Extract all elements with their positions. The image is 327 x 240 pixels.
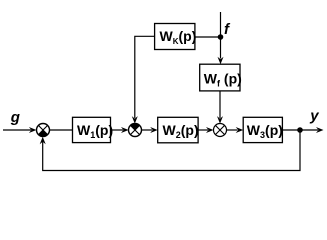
wire W2 to S3	[198, 129, 208, 131]
svg-text:WK(p): WK(p)	[160, 28, 197, 46]
block W2	[158, 117, 198, 143]
summer S2	[129, 123, 142, 136]
svg-text:Wf (p): Wf (p)	[204, 70, 242, 88]
wire f input	[220, 12, 222, 37]
wire W1 to S2	[111, 129, 124, 131]
wire f node to WK input	[195, 36, 221, 38]
wire S2 to W2	[142, 129, 153, 131]
svg-text:W3(p): W3(p)	[247, 122, 283, 140]
block W3	[243, 117, 282, 142]
svg-text:W1(p): W1(p)	[77, 122, 113, 140]
block Wf	[200, 64, 240, 91]
node f	[218, 34, 224, 40]
summer S1	[37, 124, 50, 137]
block W1	[73, 117, 111, 142]
wire W3 to output y	[282, 129, 318, 131]
wire S3 to W3	[227, 129, 238, 131]
node output junction	[297, 127, 303, 133]
wire WK output to S2	[135, 36, 155, 118]
wire f node to Wf	[220, 37, 222, 59]
block WK	[155, 24, 195, 50]
summer S3	[214, 124, 227, 137]
svg-text:g: g	[10, 109, 20, 126]
wire Wf to S3	[219, 91, 221, 118]
svg-text:y: y	[309, 108, 319, 125]
svg-text:W2(p): W2(p)	[163, 122, 199, 140]
wire S1 to W1	[50, 129, 73, 131]
wire feedback	[43, 130, 300, 171]
wire g input	[3, 129, 31, 131]
